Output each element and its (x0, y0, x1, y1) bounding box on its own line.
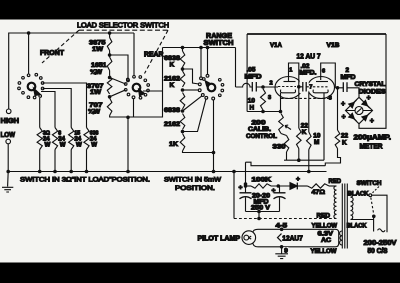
node cathode rail (297, 158, 301, 162)
svg-text:50 C/S: 50 C/S (368, 248, 388, 255)
label 3&#937; 24W (43, 131, 51, 149)
bridge crossbar (346, 110, 373, 112)
svg-text:+: + (341, 99, 345, 108)
wire V1B plate junction (335, 86, 339, 90)
svg-text:MFD.: MFD. (300, 70, 317, 77)
svg-text:K: K (302, 129, 307, 136)
triode V1B grid (313, 86, 328, 88)
label 15 24W (74, 131, 82, 149)
capacitor 20MFD a (240, 186, 252, 212)
svg-text:200-250V: 200-250V (364, 240, 397, 247)
label 638 24W (90, 131, 99, 149)
dashed pointer switch (373, 187, 380, 193)
resistor 47 ohm (308, 184, 330, 188)
label 10 M (313, 132, 321, 146)
contact mains switch (369, 194, 372, 197)
wire range return to bus (213, 153, 215, 172)
label SWITCH IN 3-OHM INT LOAD POSITION (20, 176, 150, 183)
label 8 24W (58, 131, 66, 149)
wire cathode rail (284, 159, 324, 161)
capacitor 2 MFD (338, 82, 354, 92)
wire 47 to transformer (329, 185, 337, 187)
wire range rail (163, 47, 236, 49)
node right tap4 (181, 130, 185, 134)
pin 2 (270, 80, 273, 86)
wire to rear bottom contact (132, 96, 135, 117)
label cap b + (272, 188, 276, 195)
dashed underline (79, 29, 168, 31)
triode V1B cathode (313, 90, 328, 93)
node load 15 bus (69, 170, 73, 174)
svg-text:200μAMP.: 200μAMP. (354, 135, 392, 142)
label 3875 1W (89, 40, 106, 53)
pin 3 (268, 95, 271, 101)
svg-text:W: W (45, 141, 51, 148)
capacitor 20MFD b (274, 186, 286, 212)
transformer primary (351, 193, 354, 220)
node chain tap1 (108, 51, 112, 58)
label V1A (270, 42, 282, 49)
svg-text:2: 2 (270, 80, 273, 86)
label V1B (327, 42, 340, 49)
svg-text:6: 6 (322, 68, 325, 74)
svg-text:HIGH: HIGH (1, 116, 20, 125)
svg-text:7: 7 (309, 85, 312, 91)
meter M1 (355, 107, 363, 115)
label BLACK bottom (347, 222, 367, 229)
label 2162 (164, 121, 180, 128)
label 100K (252, 177, 272, 184)
svg-text:¾W: ¾W (88, 109, 100, 116)
svg-text:DIODES: DIODES (359, 88, 386, 95)
wire V1A cathode down (280, 93, 282, 112)
wire HT return dashed (234, 218, 337, 220)
diode rectifier (290, 183, 297, 190)
label 22 K b (341, 132, 349, 146)
label 12AU7 heater (282, 235, 303, 242)
label 2 MFD (341, 67, 356, 81)
label YELLOW bottom (311, 248, 338, 255)
wire heater top (253, 229, 339, 233)
label 6838 (164, 107, 180, 114)
label FRONT (40, 50, 65, 57)
label HIGH (1, 116, 20, 125)
wire right chain top (182, 48, 184, 52)
resistor 10M (307, 132, 312, 172)
node choke top (261, 85, 265, 89)
node top bus to front switch (27, 31, 31, 35)
wire front contact to 15 load (43, 89, 72, 128)
wire rear bottom link (134, 91, 163, 117)
wire front contact to 638 load (43, 83, 87, 128)
svg-text:1: 1 (289, 67, 292, 73)
resistor 22K a (297, 128, 302, 160)
wire cap to grid (256, 86, 278, 88)
svg-text:RED: RED (329, 178, 342, 185)
svg-text:BLACK: BLACK (347, 222, 367, 229)
svg-text:100K: 100K (252, 177, 272, 184)
label RED bottom (317, 212, 331, 219)
label BLACK top (348, 190, 369, 197)
switch mains dashed arm (371, 198, 376, 219)
wire tap2 to rear contact (110, 78, 126, 85)
tube envelope bottom dashed (281, 97, 330, 99)
svg-text:+: + (272, 188, 276, 195)
dashed pointer to front switch (42, 30, 79, 63)
svg-text:SWITCH IN 5mW: SWITCH IN 5mW (164, 176, 222, 183)
diode D4 (362, 113, 370, 121)
label .02 MFD (300, 63, 317, 77)
wire front switch feed (28, 33, 30, 74)
label 1651 3/4W (90, 62, 107, 76)
svg-text:V1A: V1A (270, 42, 282, 49)
inductor 10H (261, 89, 266, 110)
node supply left (244, 184, 248, 188)
svg-text:YELLOW: YELLOW (311, 248, 338, 255)
node right tap1 (181, 67, 185, 71)
switch RANGE rotor (208, 84, 216, 92)
capacitor .02 MFD (299, 81, 313, 94)
switch FRONT contacts (18, 73, 44, 98)
wire B+ left drop (246, 34, 248, 112)
switch FRONT rotor (28, 83, 36, 91)
svg-text:RED: RED (317, 212, 331, 219)
tube V1A envelope (275, 77, 302, 99)
node rail chain (181, 46, 185, 50)
svg-text:1W: 1W (92, 46, 104, 53)
svg-text:+: + (370, 116, 374, 125)
svg-text:FRONT: FRONT (40, 50, 65, 57)
svg-text:330: 330 (273, 143, 287, 150)
label SWITCH IN 5mW (164, 176, 222, 183)
node V1A plate-cap (297, 85, 301, 89)
label cap a + (239, 185, 243, 192)
wire V1B cathode down (323, 93, 325, 160)
label METER (360, 144, 383, 151)
node right tap2 (181, 88, 185, 92)
switch RANGE contacts (203, 78, 224, 97)
svg-text:YELLOW: YELLOW (312, 223, 338, 230)
wire choke bottom (247, 110, 280, 112)
node chain tap2 (108, 76, 112, 80)
label 3707 1W (87, 83, 104, 96)
bridge diamond (346, 97, 373, 124)
svg-text:+: + (296, 176, 300, 183)
svg-text:V1B: V1B (327, 42, 340, 49)
label LOAD SELECTOR SWITCH (77, 22, 169, 29)
label pin 4-5 (276, 222, 288, 229)
label PILOT LAMP (198, 235, 241, 242)
pin 6 (322, 68, 325, 74)
switch REAR rotor (133, 84, 141, 92)
resistor 1651 3/4W (107, 57, 112, 71)
label .05 MFD (245, 67, 262, 81)
wire rear right riser (162, 48, 164, 92)
svg-text:1K: 1K (169, 141, 178, 148)
label 200 CALIB CONTROL (246, 119, 277, 140)
resistor 2162 (180, 114, 185, 130)
label 20-20 MFD 250V (251, 192, 271, 211)
wire rear wiper out (143, 90, 163, 92)
potentiometer 200 calib (279, 114, 291, 134)
resistor 100K (251, 184, 271, 188)
wire tap3 to rear contact (110, 90, 126, 97)
wire heater bottom (253, 233, 339, 247)
transformer core (342, 184, 347, 249)
node choke-cathode (261, 110, 282, 114)
wire rail to range contact b (206, 48, 209, 78)
wire tap1 to range (183, 69, 202, 86)
ground heater (275, 247, 288, 259)
ground bus (8, 171, 326, 173)
node range-ground (212, 170, 216, 174)
svg-text:W: W (91, 141, 97, 148)
wire front wiper to 8 load (41, 92, 55, 128)
svg-text:10: 10 (248, 97, 256, 104)
label DIODES (359, 88, 386, 95)
dashed pointer to rear switch (145, 30, 169, 73)
svg-text:1651: 1651 (91, 62, 107, 69)
wire mains live (373, 216, 375, 231)
node chain tap3 (108, 95, 112, 99)
pin 7 (309, 83, 313, 90)
svg-text:REAR: REAR (144, 52, 164, 59)
svg-text:MFD: MFD (341, 74, 356, 81)
svg-text:.05: .05 (247, 67, 256, 74)
label AC (321, 237, 331, 244)
diode D1 (349, 100, 357, 108)
svg-text:CALIB.: CALIB. (248, 126, 271, 133)
node B- left (244, 182, 248, 186)
wire switch to mains (372, 195, 387, 232)
svg-text:K: K (170, 62, 175, 69)
svg-text:SWITCH: SWITCH (357, 180, 382, 187)
svg-text:BLACK: BLACK (348, 190, 369, 197)
svg-text:LOAD SELECTOR SWITCH: LOAD SELECTOR SWITCH (77, 22, 169, 29)
svg-text:707: 707 (89, 102, 103, 109)
wire tap3 to range (183, 94, 205, 111)
wire LOW to ground bus (7, 144, 9, 172)
label 12AU7 (297, 51, 321, 60)
label 22 K a (301, 122, 309, 136)
svg-text:12 AU 7: 12 AU 7 (297, 51, 321, 60)
triode V1B plate (316, 63, 335, 88)
node heater pin9 (280, 245, 284, 249)
svg-text:SWITCH IN 3Ω“INT LOAD”POSITION: SWITCH IN 3Ω“INT LOAD”POSITION. (20, 176, 150, 183)
wire caps bottom (246, 211, 280, 213)
label 707 3/4W (88, 102, 103, 116)
wire range bottom contact (212, 97, 215, 152)
node filter mid (277, 184, 281, 188)
node load 638 bus (85, 170, 89, 174)
label 1K (169, 141, 178, 148)
label RED top (329, 178, 342, 185)
resistor 330 (281, 134, 289, 161)
svg-text:MFD: MFD (245, 74, 262, 81)
wire caps to return (257, 212, 261, 221)
svg-text:3: 3 (268, 95, 271, 101)
label CRYSTAL (355, 81, 386, 88)
svg-text:2: 2 (346, 67, 350, 74)
svg-text:SWITCH: SWITCH (204, 40, 234, 47)
wire top bus (9, 33, 134, 109)
resistor 22K b (325, 130, 340, 166)
label 10 H (248, 97, 256, 111)
svg-text:AC: AC (321, 237, 331, 244)
svg-text:47Ω: 47Ω (312, 189, 326, 196)
diode D2 (362, 100, 370, 108)
label 200uAMP (354, 135, 392, 142)
label LOW (1, 130, 16, 139)
bridge + marks (341, 93, 374, 125)
label RANGE (206, 33, 232, 40)
wire bridge bottom (359, 34, 386, 128)
resistor load 638 (84, 128, 89, 172)
wire range wiper out (236, 48, 253, 88)
node right tap3 (181, 109, 185, 113)
resistor 2162K (180, 71, 185, 87)
resistor load 3&#937; (37, 128, 42, 172)
node chain bottom (126, 116, 130, 120)
terminal HIGH (6, 109, 11, 114)
diode D3 (349, 113, 357, 121)
resistor 3707 1W (107, 76, 112, 95)
node bus LOW (6, 170, 10, 174)
resistor load 8 (52, 128, 57, 172)
svg-text:CRYSTAL: CRYSTAL (355, 81, 386, 88)
resistor 6838 (180, 93, 185, 110)
triode V1A cathode (280, 90, 295, 93)
label 6838 K (164, 55, 180, 69)
svg-text:RANGE: RANGE (206, 33, 232, 40)
node load 8 bus (53, 170, 57, 174)
wire tap2 to range (183, 89, 202, 92)
svg-text:1W: 1W (90, 89, 102, 96)
svg-text:METER: METER (360, 144, 383, 151)
pin 8 (329, 95, 332, 101)
wire chain mid (109, 71, 111, 76)
svg-text:K: K (170, 82, 175, 89)
node heater pin45 (280, 228, 284, 232)
node top bus to load chain (108, 31, 112, 35)
svg-text:M: M (314, 139, 319, 146)
label YELLOW top (312, 223, 338, 230)
wire right chain bottom (183, 151, 214, 153)
svg-text:POSITION.: POSITION. (175, 185, 215, 192)
wire 100K to diode (271, 185, 290, 187)
wire rail to range contact a (200, 48, 203, 80)
resistor 707 3/4W (107, 98, 112, 116)
wire ground drop right (232, 170, 236, 219)
label 200-250V (364, 240, 397, 247)
svg-text:+: + (239, 185, 243, 192)
ground symbol (2, 172, 13, 193)
wire front contact to 3-ohm load (39, 98, 41, 128)
wire V1A plate drop (298, 87, 300, 128)
node chain-ground (126, 170, 130, 174)
tube V1B envelope (308, 77, 335, 99)
svg-text:22: 22 (341, 132, 349, 139)
node load 3&#937; bus (38, 170, 42, 174)
svg-text:LOW: LOW (1, 130, 16, 139)
wire 22K b top (337, 88, 339, 130)
switch RANGE wiper (205, 81, 209, 86)
pin 1 (289, 67, 292, 73)
svg-text:12AU7: 12AU7 (282, 235, 303, 242)
svg-text:4-5: 4-5 (276, 222, 288, 229)
resistor 6838K (180, 51, 185, 67)
svg-text:H: H (250, 104, 255, 111)
label 50 C/S (368, 248, 388, 255)
wire cap to bridge (354, 88, 360, 98)
svg-text:W: W (60, 141, 66, 148)
wire chain bottom (110, 116, 134, 118)
wire B- rail (246, 162, 326, 166)
capacitor .05 MFD (252, 82, 256, 92)
wire B- to supply (245, 162, 247, 186)
transformer secondary (334, 186, 337, 219)
wire tap1 to rear contact (110, 55, 130, 82)
switch REAR contacts (124, 76, 149, 100)
svg-text:W: W (76, 141, 82, 148)
label POSITION (175, 185, 215, 192)
svg-text:PILOT LAMP: PILOT LAMP (198, 235, 241, 242)
triode V1A plate (284, 63, 299, 87)
node rail c1 (199, 46, 203, 50)
svg-text:2162: 2162 (164, 121, 180, 128)
wire diode to 47 (297, 185, 307, 187)
label pin 9 (283, 247, 288, 255)
wire chain bottom to ground bus (127, 117, 129, 171)
svg-text:CONTROL: CONTROL (246, 133, 277, 140)
wire tap4 to range (183, 96, 208, 131)
terminal LOW (6, 139, 11, 144)
svg-text:K: K (342, 139, 347, 146)
label REAR (144, 52, 164, 59)
triode V1A grid (278, 86, 296, 88)
switch FRONT wiper (34, 88, 41, 96)
wire chain top (109, 33, 111, 38)
label 47 ohm (312, 189, 326, 196)
pilot lamp (242, 231, 256, 245)
svg-text:6838: 6838 (164, 107, 180, 114)
wire primary top lead (351, 192, 354, 194)
svg-text:+: + (342, 112, 346, 121)
label SWITCH mains (357, 180, 382, 187)
svg-text:250 V: 250 V (251, 205, 271, 212)
resistor 3875 1W (107, 38, 112, 51)
label 2162 K (164, 76, 180, 90)
resistor load 15 (69, 128, 74, 172)
svg-text:¾W: ¾W (90, 69, 102, 76)
node 10M ground (307, 170, 311, 174)
wire primary bottom lead (351, 219, 374, 221)
wire supply line (246, 185, 252, 187)
label SWITCH (204, 40, 234, 47)
ac source tilde (378, 229, 386, 232)
label 330 (273, 143, 287, 150)
wire top bus to rear switch (133, 33, 135, 76)
label diode polarity + (296, 176, 300, 183)
resistor 1K (180, 134, 185, 152)
wire B+ top rail (247, 33, 386, 35)
node caps bottom (257, 210, 261, 214)
switch REAR wiper (139, 89, 145, 96)
svg-text:+: + (367, 93, 371, 102)
node range return (212, 151, 216, 155)
wire V1B grid drop (308, 92, 310, 133)
node rail c2 (206, 46, 210, 50)
